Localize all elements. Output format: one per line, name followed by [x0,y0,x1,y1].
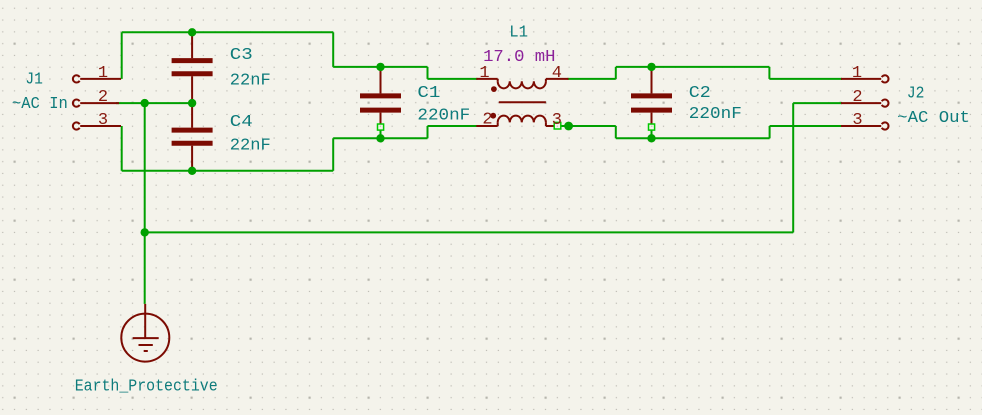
wire live: L1 pin4 to corner [568,78,616,80]
wire earth: vertical x=145 down [144,103,146,232]
junction C4 bottom [188,167,196,175]
wire live: step up x=616 [615,67,617,79]
wire live: vertical x=333 down [332,32,334,67]
junction C1 bottom [376,134,384,142]
capacitor C1 [360,67,401,124]
wire live: top horizontal y=32 [122,31,334,33]
wire live: horizontal y=67 to step [333,66,427,68]
wire earth: J1 pin2 to C3/C4 midpoint [116,102,192,104]
C1 pin end square [378,124,384,130]
wire neutral: C2 bottom stub [651,130,653,139]
svg-text:2: 2 [98,88,108,107]
capacitor C2 [631,67,672,124]
wire earth: drop to earth symbol [144,232,146,304]
capacitor C3 [172,33,213,103]
wire neutral: horizontal y=138 to step [333,137,427,139]
junction C2 top [647,63,655,71]
inductor L1 coupled [476,79,568,126]
svg-text:~AC Out: ~AC Out [897,109,970,128]
wire live: horizontal y=67 over C2 [616,66,770,68]
svg-text:2: 2 [852,88,862,107]
svg-text:3: 3 [98,111,108,130]
wire neutral: J1 pin3 vertical down [121,126,123,171]
wire earth: vertical x=793 up to J2 pin2 [792,103,794,232]
earth protective symbol [121,304,169,362]
wire live: step down x=427 [427,67,429,79]
wire neutral: step up x=427 [427,126,429,138]
junction L1 pin3 [564,122,573,131]
svg-text:3: 3 [552,111,562,130]
svg-text:Earth_Protective: Earth_Protective [75,377,218,396]
L1 pin3 end square [554,122,561,129]
svg-text:~AC In: ~AC In [12,95,68,114]
junction C3/C4 mid [188,99,196,107]
wire neutral: horizontal y=126 into L1 pin2 [428,125,478,127]
svg-text:22nF: 22nF [230,72,271,91]
junction C2 bottom [647,134,655,142]
svg-text:J2: J2 [907,84,925,103]
wire live: horizontal y=79 into L1 pin1 [428,78,478,80]
wire neutral: L1 pin3 to corner [561,125,616,127]
wire live: J1 pin1 vertical up [121,32,123,79]
svg-text:1: 1 [479,64,489,83]
svg-text:L1: L1 [509,24,528,43]
junction J1 top [188,28,196,36]
connector J2 [841,75,889,129]
svg-text:3: 3 [852,111,862,130]
wire neutral: horizontal y=126 to J2 pin3 [770,125,842,127]
svg-text:4: 4 [552,64,562,83]
svg-text:C1: C1 [417,84,440,103]
capacitor C4 [172,103,213,171]
svg-text:J1: J1 [25,71,43,90]
wire live: horizontal y=79 to J2 pin1 [769,78,842,80]
wire neutral: bottom horizontal y=171 [122,170,334,172]
junction C1 top [376,63,384,71]
wire neutral: step up x=769 [769,126,771,138]
wire neutral: horizontal y=138 under C2 [616,137,770,139]
svg-text:2: 2 [482,111,492,130]
wire earth: horizontal y=103 to J2 pin2 [793,102,842,104]
wire neutral: C1 bottom stub [380,130,382,139]
svg-text:220nF: 220nF [689,105,742,124]
svg-text:C2: C2 [689,84,711,103]
wire neutral: step down x=616 [615,126,617,138]
svg-text:C4: C4 [230,113,253,132]
junction pin2 left [141,99,149,107]
svg-text:220nF: 220nF [417,107,470,126]
svg-text:1: 1 [98,64,108,83]
wire earth: long horizontal y=232 [145,231,794,233]
svg-text:C3: C3 [230,46,253,65]
svg-text:22nF: 22nF [230,137,271,156]
junction earth [141,228,149,236]
svg-text:17.0 mH: 17.0 mH [483,48,555,67]
C2 pin end square [649,124,655,130]
wire live: step down x=769 [768,67,770,79]
wire neutral: vertical x=333 up [332,138,334,171]
svg-text:1: 1 [852,64,862,83]
connector J1 [73,75,121,129]
